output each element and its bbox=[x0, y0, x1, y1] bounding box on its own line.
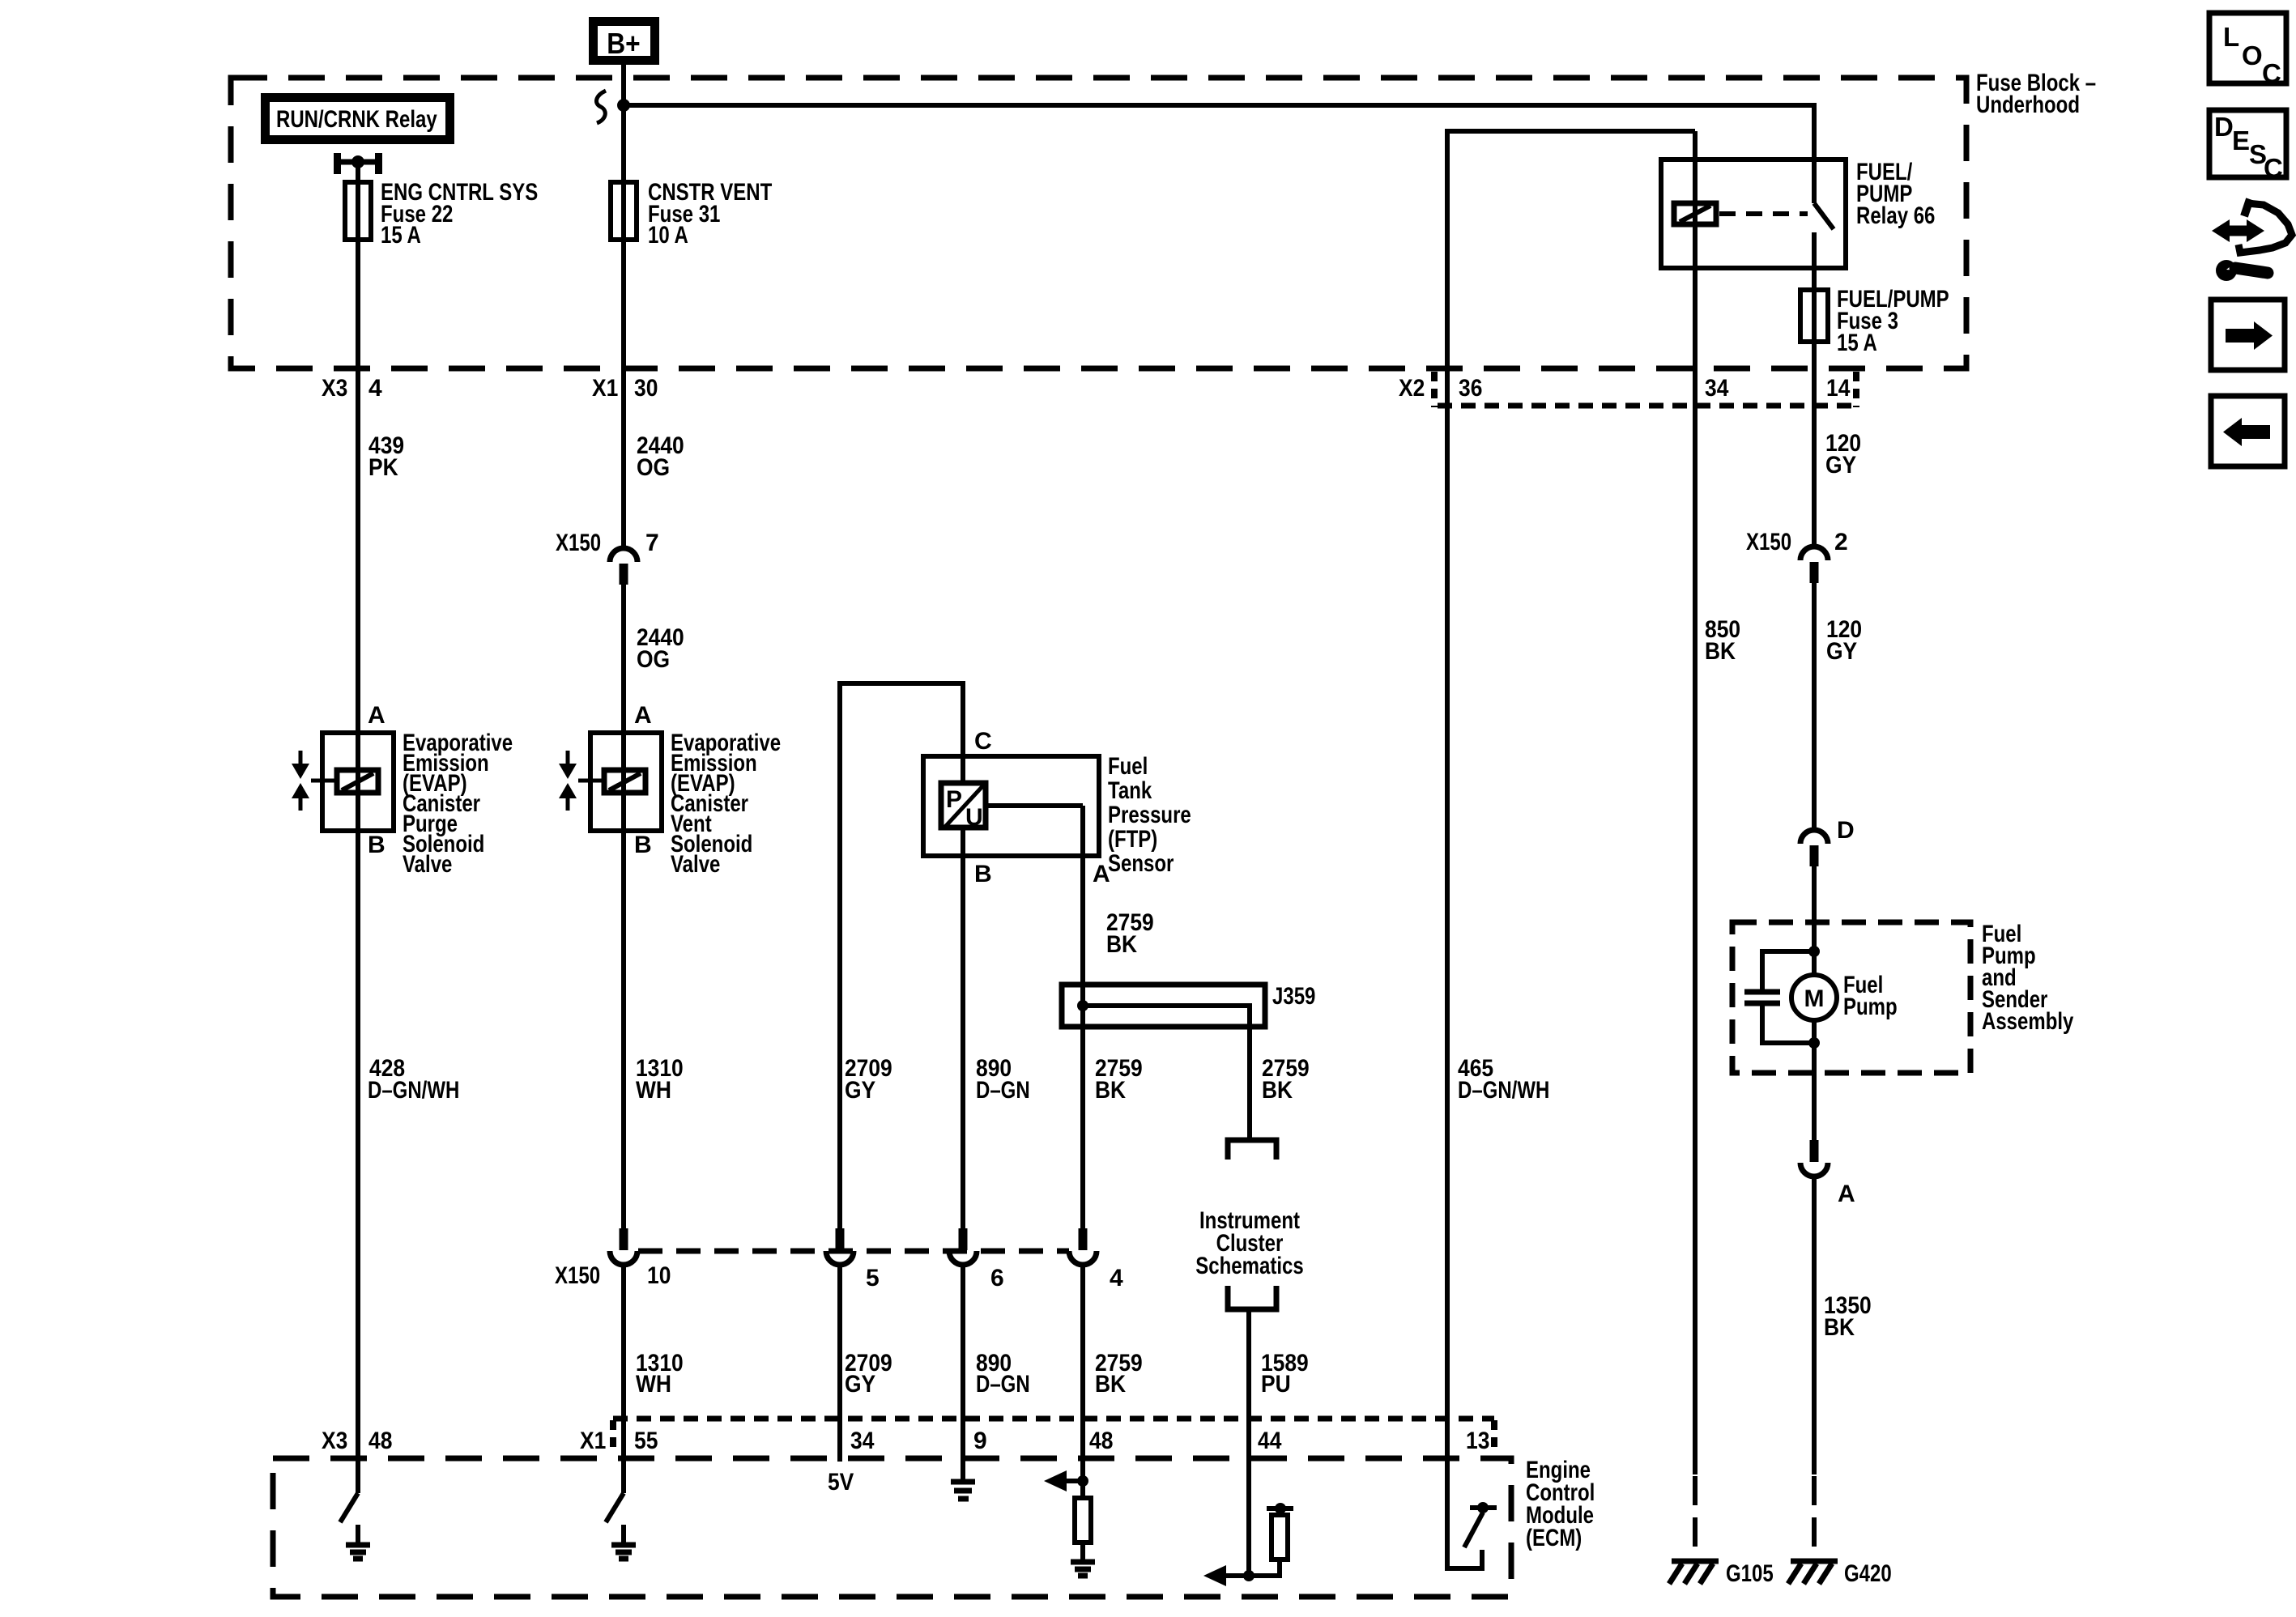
svg-text:Fuel: Fuel bbox=[1108, 753, 1148, 780]
icon LOC box bbox=[2209, 13, 2286, 88]
wire 2759 BK to ECM 48 bbox=[1080, 1265, 1085, 1498]
wire label 1350 BK bbox=[1824, 1292, 1872, 1341]
svg-text:5: 5 bbox=[866, 1265, 880, 1291]
ground G105 bbox=[1669, 1560, 1774, 1587]
icon diagnostic hand tool bbox=[2212, 199, 2292, 281]
svg-text:O: O bbox=[2242, 40, 2263, 70]
svg-text:34: 34 bbox=[1705, 375, 1729, 402]
ECM driver switch pin X3-48 bbox=[340, 1493, 358, 1522]
svg-text:13: 13 bbox=[1466, 1428, 1489, 1454]
power node B+ bbox=[594, 22, 655, 61]
connector staple to instrument cluster bbox=[1228, 1140, 1276, 1160]
svg-text:A: A bbox=[634, 702, 652, 729]
svg-text:PK: PK bbox=[368, 454, 398, 481]
svg-text:34: 34 bbox=[850, 1428, 875, 1454]
svg-text:B: B bbox=[368, 832, 386, 858]
splice junction dot at B+ bus bbox=[617, 99, 630, 112]
wire relay switch to fuse 3 bbox=[1812, 232, 1817, 547]
svg-text:D: D bbox=[2214, 112, 2234, 142]
ground G420 bbox=[1788, 1560, 1892, 1587]
svg-text:Valve: Valve bbox=[403, 851, 452, 878]
svg-text:WH: WH bbox=[636, 1077, 671, 1104]
svg-text:55: 55 bbox=[634, 1428, 658, 1454]
wire label 428 D-GN/WH bbox=[368, 1055, 459, 1104]
relay K66 switch blade bbox=[1814, 203, 1834, 229]
svg-text:OG: OG bbox=[637, 646, 670, 673]
svg-text:RUN/CRNK Relay: RUN/CRNK Relay bbox=[276, 106, 437, 133]
sensor FTP fuel tank pressure bbox=[923, 728, 1191, 887]
ground inside ECM at X1-55 bbox=[611, 1525, 636, 1559]
svg-text:BK: BK bbox=[1824, 1314, 1855, 1341]
svg-text:OG: OG bbox=[637, 454, 670, 481]
wire pump to A connector bbox=[1812, 1020, 1817, 1140]
svg-text:48: 48 bbox=[368, 1428, 392, 1454]
fuel pump and sender assembly dashed box bbox=[1732, 921, 2074, 1073]
icon arrow back box bbox=[2211, 396, 2285, 466]
icon arrow next box bbox=[2211, 300, 2285, 370]
fuse F22 ENG CNTRL SYS 15A bbox=[345, 179, 538, 249]
wire FTP A signal bbox=[1080, 806, 1085, 1228]
wire 1350 BK to G420 bbox=[1812, 1177, 1817, 1474]
ECM driver switch pin X1-55 bbox=[606, 1493, 624, 1522]
connector row left bracket bbox=[610, 1420, 616, 1451]
wire 2709 GY to ECM 34 bbox=[837, 1265, 842, 1462]
svg-text:15 A: 15 A bbox=[381, 222, 421, 249]
svg-text:Sensor: Sensor bbox=[1108, 850, 1174, 877]
connector X2 row bbox=[1399, 372, 1856, 407]
svg-text:X3: X3 bbox=[322, 375, 347, 402]
svg-text:X150: X150 bbox=[555, 1262, 600, 1289]
ECM pin labels bbox=[322, 1428, 1489, 1454]
relay K66 linkage dashed bbox=[1719, 211, 1808, 216]
svg-text:GY: GY bbox=[1825, 452, 1856, 479]
svg-text:D: D bbox=[1837, 817, 1855, 844]
wire B+ feed down to Fuse 31 bbox=[621, 65, 626, 547]
connector X150 pin 10 bbox=[555, 1228, 671, 1289]
connector X150 pin 2 bbox=[1746, 529, 1848, 583]
svg-text:Pump: Pump bbox=[1843, 994, 1898, 1020]
svg-text:44: 44 bbox=[1258, 1428, 1282, 1454]
resistor pull-down pin 48 bbox=[1075, 1498, 1091, 1543]
wire D connector into pump bbox=[1812, 866, 1817, 975]
svg-text:E: E bbox=[2232, 126, 2250, 155]
wire label 439 PK bbox=[368, 432, 404, 481]
svg-text:48: 48 bbox=[1089, 1428, 1113, 1454]
wire label 120 GY lower bbox=[1826, 616, 1862, 665]
relay K66 FUEL/PUMP Relay 66 bbox=[1661, 159, 1935, 268]
connector X150 pin 6 bbox=[949, 1228, 1004, 1291]
off-page reference instrument cluster schematics bbox=[1195, 1207, 1303, 1279]
junction dot pump bottom bbox=[1808, 1037, 1820, 1049]
wire label 120 GY upper bbox=[1825, 430, 1861, 479]
ground inside ECM at pin 48 bbox=[1071, 1562, 1095, 1576]
svg-text:BK: BK bbox=[1106, 931, 1137, 958]
wire labels below X150 row bbox=[636, 1350, 684, 1398]
ECM relay driver switch pin 13 bbox=[1464, 1502, 1497, 1547]
svg-text:U: U bbox=[965, 804, 983, 831]
wire fuse3 to fuel pump bbox=[1812, 583, 1817, 831]
fuse block label bbox=[1976, 70, 2096, 118]
svg-text:Relay 66: Relay 66 bbox=[1856, 202, 1935, 229]
svg-text:Tank: Tank bbox=[1108, 777, 1152, 804]
wire FTP 5V reference jog bbox=[840, 683, 963, 1228]
connector X150 pin 4 bbox=[1069, 1228, 1123, 1291]
svg-text:7: 7 bbox=[645, 530, 659, 556]
wire vent solenoid feed bbox=[621, 585, 626, 1228]
svg-text:BK: BK bbox=[1705, 638, 1736, 665]
junction dot pump top bbox=[1808, 946, 1820, 957]
svg-text:C: C bbox=[974, 728, 992, 755]
svg-text:GY: GY bbox=[1826, 638, 1857, 665]
svg-text:30: 30 bbox=[634, 375, 658, 402]
svg-text:A: A bbox=[1838, 1181, 1855, 1207]
ground inside ECM at pin 9 bbox=[951, 1482, 975, 1499]
wire dashed drop to G105 bbox=[1693, 1476, 1698, 1559]
svg-text:Assembly: Assembly bbox=[1982, 1008, 2074, 1035]
svg-text:GY: GY bbox=[845, 1371, 875, 1398]
wire label 1310 WH upper bbox=[636, 1055, 684, 1104]
wire FTP B signal low bbox=[961, 828, 965, 1228]
svg-text:15 A: 15 A bbox=[1837, 330, 1877, 356]
svg-text:36: 36 bbox=[1459, 375, 1482, 402]
svg-text:Underhood: Underhood bbox=[1976, 91, 2080, 118]
signal arrow at pin 44 bbox=[1203, 1565, 1249, 1586]
connector X150 row 2 dashed separation bbox=[638, 1249, 1069, 1254]
svg-text:Valve: Valve bbox=[671, 851, 720, 878]
fuse F31 CNSTR VENT 10A bbox=[611, 179, 772, 249]
svg-text:5V: 5V bbox=[828, 1469, 854, 1496]
relay K66 coil bbox=[1674, 203, 1716, 224]
junction dot pin 44 bbox=[1243, 1570, 1254, 1581]
svg-text:GY: GY bbox=[845, 1077, 875, 1104]
svg-text:14: 14 bbox=[1826, 375, 1851, 402]
wire labels above X150 row bbox=[845, 1055, 892, 1104]
svg-text:C: C bbox=[2264, 153, 2283, 183]
svg-text:J359: J359 bbox=[1272, 983, 1315, 1010]
svg-text:M: M bbox=[1804, 985, 1825, 1012]
connector X150 pin 5 bbox=[826, 1228, 880, 1291]
wire ECM pin13 to relay coil top bbox=[1447, 131, 1695, 1568]
wire bus B+ to fuel pump relay switch bbox=[624, 105, 1814, 203]
motor M fuel pump bbox=[1791, 972, 1898, 1020]
wire label 2440 OG upper bbox=[637, 432, 684, 481]
svg-text:BK: BK bbox=[1095, 1371, 1126, 1398]
wire resistor to ground pin 48 bbox=[1080, 1543, 1085, 1562]
wire label 850 BK bbox=[1705, 616, 1740, 665]
svg-text:X2: X2 bbox=[1399, 375, 1425, 402]
svg-text:BK: BK bbox=[1095, 1077, 1126, 1104]
icon DESC box bbox=[2209, 110, 2286, 183]
svg-text:10 A: 10 A bbox=[648, 222, 688, 249]
connector X150 pin 7 bbox=[556, 530, 659, 585]
svg-text:10: 10 bbox=[647, 1262, 671, 1289]
svg-text:Pressure: Pressure bbox=[1108, 802, 1191, 828]
solenoid EVAP canister vent valve bbox=[559, 702, 781, 878]
wire 1310 WH to ECM 55 bbox=[621, 1265, 626, 1493]
connector staple from instrument cluster bbox=[1228, 1286, 1276, 1309]
relay box RUN/CRNK Relay bbox=[266, 98, 450, 140]
svg-text:P: P bbox=[946, 786, 962, 813]
svg-text:B+: B+ bbox=[607, 27, 640, 60]
connector A fuel pump assembly bbox=[1800, 1140, 1855, 1207]
svg-text:C: C bbox=[2262, 58, 2281, 88]
svg-text:6: 6 bbox=[990, 1265, 1004, 1291]
svg-text:4: 4 bbox=[1110, 1265, 1123, 1291]
svg-text:D–GN: D–GN bbox=[976, 1077, 1030, 1104]
ECM dashed box bbox=[273, 1458, 1511, 1597]
resistor pull-up pin 44 bbox=[1249, 1503, 1293, 1576]
svg-text:BK: BK bbox=[1262, 1077, 1293, 1104]
connector D fuel pump assembly bbox=[1800, 817, 1855, 866]
svg-text:2: 2 bbox=[1834, 529, 1848, 555]
svg-text:WH: WH bbox=[636, 1371, 671, 1398]
svg-text:D–GN: D–GN bbox=[976, 1371, 1030, 1398]
ECM label bbox=[1526, 1457, 1595, 1551]
RUN/CRNK relay contact terminal bbox=[334, 153, 382, 174]
svg-text:D–GN/WH: D–GN/WH bbox=[368, 1077, 459, 1104]
svg-text:(FTP): (FTP) bbox=[1108, 826, 1157, 853]
signal arrow at pin 48 bbox=[1044, 1470, 1083, 1491]
capacitor branch with suppression capacitor bbox=[1744, 951, 1814, 1043]
svg-text:X150: X150 bbox=[556, 530, 601, 556]
wire label 2759 BK above J359 bbox=[1106, 909, 1154, 958]
svg-text:X1: X1 bbox=[580, 1428, 606, 1454]
svg-text:X1: X1 bbox=[592, 375, 618, 402]
solenoid EVAP canister purge valve bbox=[292, 702, 513, 878]
connector row into ECM dotted line bbox=[613, 1416, 1494, 1422]
wire dashed drop to G420 bbox=[1812, 1476, 1817, 1559]
wire 1589 PU to ECM pin 44 bbox=[1246, 1312, 1251, 1576]
svg-text:B: B bbox=[634, 832, 652, 858]
svg-text:D–GN/WH: D–GN/WH bbox=[1458, 1077, 1549, 1104]
splice curl symbol bbox=[596, 91, 606, 123]
wire label 2440 OG lower bbox=[637, 624, 684, 673]
svg-text:X3: X3 bbox=[322, 1428, 347, 1454]
svg-text:X150: X150 bbox=[1746, 529, 1791, 555]
svg-text:(ECM): (ECM) bbox=[1526, 1525, 1582, 1551]
svg-text:G105: G105 bbox=[1726, 1560, 1774, 1587]
svg-text:9: 9 bbox=[973, 1428, 987, 1454]
svg-text:G420: G420 bbox=[1844, 1560, 1892, 1587]
wire 890 D-GN to ECM 9 bbox=[961, 1265, 965, 1479]
splice pack J359 bbox=[1062, 983, 1315, 1138]
fuse F3 FUEL/PUMP 15A bbox=[1800, 286, 1949, 356]
svg-text:B: B bbox=[974, 861, 992, 887]
svg-text:4: 4 bbox=[368, 375, 382, 402]
svg-text:Schematics: Schematics bbox=[1195, 1253, 1303, 1279]
connector row X3/X1 pin labels bbox=[322, 375, 658, 402]
connector row right bracket bbox=[1491, 1420, 1497, 1451]
fuse block underhood dashed outline bbox=[231, 78, 1966, 368]
ground inside ECM at X3-48 bbox=[346, 1525, 370, 1559]
svg-text:A: A bbox=[368, 702, 386, 729]
svg-text:PU: PU bbox=[1261, 1371, 1291, 1398]
svg-text:L: L bbox=[2223, 22, 2239, 52]
wire ENG CNTRL SYS circuit vertical bbox=[356, 162, 360, 1493]
junction dot pin 48 bbox=[1077, 1475, 1088, 1487]
wire relay coil to ground branch bbox=[1693, 131, 1698, 1474]
